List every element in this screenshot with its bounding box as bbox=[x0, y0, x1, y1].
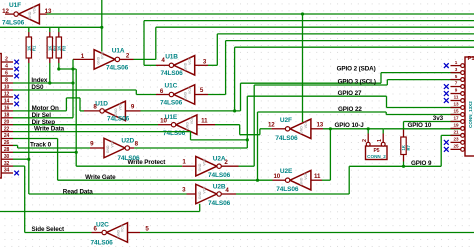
svg-text:9: 9 bbox=[455, 88, 458, 93]
U1A output pin 2 bbox=[120, 58, 134, 60]
resistor R1 bbox=[28, 27, 30, 32]
wire link rail (R3/U1A.in/WP riser) bbox=[59, 68, 76, 70]
wire U1C.out jog to DS0 bbox=[136, 94, 156, 96]
floppy pin 20 bbox=[1, 124, 13, 126]
wire R3 to link rail bbox=[58, 63, 60, 69]
wire GPIO2 SDA bbox=[241, 82, 382, 84]
U2A input pin 1 bbox=[182, 165, 196, 167]
svg-text:74LS06: 74LS06 bbox=[163, 130, 186, 137]
svg-text:74LS06: 74LS06 bbox=[117, 155, 140, 162]
svg-text:26: 26 bbox=[4, 140, 10, 146]
svg-text:CONN_13X2: CONN_13X2 bbox=[468, 101, 473, 128]
U2D input pin 9 bbox=[90, 147, 104, 149]
P5 pin 2 bbox=[366, 142, 370, 146]
GPIO pin 5 bbox=[461, 78, 465, 82]
U1C input pin 5 bbox=[195, 94, 208, 96]
wire bus GPIO (U1F in) bbox=[47, 13, 474, 15]
op-amp U1F 74LS06 inverter bbox=[18, 4, 39, 24]
svg-text:U1D: U1D bbox=[95, 101, 108, 108]
wire U2A.out to SCL riser bbox=[239, 165, 255, 167]
svg-text:VCC: VCC bbox=[188, 57, 192, 65]
op-amp U2A 74LS06 inverter bbox=[196, 156, 217, 176]
floppy pin 22 bbox=[1, 131, 13, 133]
floppy pin 30 bbox=[1, 158, 13, 160]
svg-text:GPIO 27: GPIO 27 bbox=[338, 90, 362, 97]
wire GPIO10 bbox=[383, 128, 461, 130]
svg-text:22: 22 bbox=[4, 126, 10, 132]
wire Write Data drop bbox=[190, 132, 192, 140]
svg-text:Index: Index bbox=[31, 77, 48, 84]
wire 3v3 bbox=[404, 121, 462, 123]
wire U1A.out up to bus bbox=[134, 58, 156, 60]
svg-text:R1: R1 bbox=[32, 45, 37, 51]
svg-text:VCC: VCC bbox=[304, 121, 308, 129]
svg-text:74LS06: 74LS06 bbox=[275, 135, 298, 142]
svg-text:14: 14 bbox=[4, 99, 10, 105]
U1E input pin 11 bbox=[197, 124, 215, 126]
svg-text:U2F: U2F bbox=[280, 117, 292, 124]
wire Side Select bbox=[25, 232, 92, 234]
wire U2E.in riser to GPIO10-J bbox=[322, 179, 330, 181]
U1A input pin 1 bbox=[73, 58, 94, 60]
op-amp U2F 74LS06 inverter bbox=[290, 119, 311, 139]
svg-text:28: 28 bbox=[4, 147, 10, 153]
op-amp U1B 74LS06 inverter bbox=[174, 56, 195, 76]
floppy pin 4 bbox=[1, 68, 13, 70]
svg-text:30: 30 bbox=[4, 154, 10, 160]
U1F output pin 12 stub bbox=[5, 13, 14, 15]
svg-text:74LS06: 74LS06 bbox=[276, 186, 299, 193]
svg-text:VCC: VCC bbox=[119, 103, 123, 111]
GPIO pin 13 bbox=[461, 106, 465, 110]
floppy pin 24 bbox=[1, 138, 13, 140]
wire Write Protect riser bbox=[75, 69, 77, 166]
svg-text:12: 12 bbox=[268, 122, 275, 129]
svg-text:74LS06: 74LS06 bbox=[107, 115, 130, 122]
op-amp U1D 74LS06 inverter bbox=[104, 101, 125, 121]
wire U2C.in to right edge bbox=[140, 232, 474, 234]
svg-text:GPIO 3 (SCL): GPIO 3 (SCL) bbox=[338, 79, 376, 86]
svg-text:U2C: U2C bbox=[96, 222, 109, 229]
svg-text:13: 13 bbox=[316, 122, 323, 129]
floppy pin 8 bbox=[1, 82, 13, 84]
floppy pin 28 bbox=[1, 151, 13, 153]
svg-text:34: 34 bbox=[4, 168, 10, 174]
floppy pin 32 bbox=[1, 165, 13, 167]
GPIO pin 21 bbox=[461, 134, 465, 138]
svg-text:VCC: VCC bbox=[33, 6, 37, 14]
U2F output pin 12 bbox=[271, 128, 285, 130]
svg-text:16: 16 bbox=[4, 106, 10, 112]
wire bus (U1B out) bbox=[144, 20, 474, 22]
svg-text:P1: P1 bbox=[468, 56, 474, 62]
svg-text:Track 0: Track 0 bbox=[30, 142, 52, 149]
wire Track 0 jog bbox=[13, 144, 18, 146]
resistor R2 bbox=[49, 27, 51, 32]
op-amp U2E 74LS06 inverter bbox=[290, 170, 311, 190]
svg-text:VCC: VCC bbox=[121, 224, 125, 232]
wire bus (U1B in) bbox=[217, 33, 474, 35]
wire GPIO27 riser (U2D.out/WriteData) bbox=[246, 96, 248, 148]
svg-text:4: 4 bbox=[5, 64, 8, 70]
wire U1D.in to bus riser and SDA riser bbox=[141, 110, 241, 112]
svg-text:74LS06: 74LS06 bbox=[161, 70, 184, 77]
svg-text:U2D: U2D bbox=[121, 138, 134, 145]
wire GPIO10-J bbox=[323, 128, 383, 130]
svg-text:VCC: VCC bbox=[111, 140, 115, 148]
wire U1E.in double jog to U2F.out bbox=[215, 124, 240, 126]
svg-text:2: 2 bbox=[362, 139, 368, 142]
U1F input pin 13 stub bbox=[39, 13, 47, 15]
U2B input pin 3 bbox=[187, 193, 196, 195]
U2E input pin 11 bbox=[311, 179, 322, 181]
wire U1B.out up to bus bbox=[144, 64, 156, 66]
svg-text:U1F: U1F bbox=[9, 2, 21, 9]
U1C output pin 6 bbox=[156, 94, 169, 96]
svg-text:U1B: U1B bbox=[165, 53, 178, 60]
svg-text:GPIO 22: GPIO 22 bbox=[338, 106, 362, 113]
U2A output pin 2 bbox=[221, 165, 238, 167]
svg-text:U1C: U1C bbox=[165, 83, 178, 90]
wire Dir Sel bbox=[13, 117, 73, 119]
wire Motor On with detour bbox=[13, 110, 66, 112]
svg-text:12: 12 bbox=[4, 92, 10, 98]
connector P2 (floppy, even pins) body edge bbox=[0, 54, 1, 179]
wire U1C.in up to bus bbox=[208, 94, 226, 96]
svg-text:VCC: VCC bbox=[304, 172, 308, 180]
floppy pin 12 bbox=[1, 96, 13, 98]
wire VCC rail bbox=[0, 26, 102, 28]
wire DS0 bbox=[13, 89, 136, 91]
U2B output pin 4 bbox=[221, 193, 236, 195]
wire Side Select from pin 32 bbox=[13, 165, 25, 167]
floppy pin 26 bbox=[1, 144, 13, 146]
wire Write Protect from pin 28 bbox=[13, 151, 76, 153]
U1E output pin 10 bbox=[158, 124, 171, 126]
svg-text:GPIO 9: GPIO 9 bbox=[411, 160, 432, 167]
wire bus (U1D in) bbox=[235, 46, 474, 48]
GPIO pin 17 bbox=[461, 120, 465, 124]
svg-text:10: 10 bbox=[4, 85, 10, 91]
svg-text:Read Data: Read Data bbox=[63, 189, 93, 196]
wire U2F hidden VCC drop from bus bbox=[302, 14, 304, 122]
GPIO pin 19 bbox=[461, 127, 465, 131]
svg-text:R3: R3 bbox=[62, 45, 67, 51]
floppy pin 18 bbox=[1, 117, 13, 119]
U1B output pin 4 bbox=[156, 64, 169, 66]
resistor R3 bbox=[58, 27, 60, 32]
svg-text:21: 21 bbox=[453, 130, 459, 135]
wire Write Gate to U2E.out bbox=[58, 179, 273, 181]
svg-text:15: 15 bbox=[453, 109, 459, 114]
svg-text:74LS06: 74LS06 bbox=[208, 200, 231, 207]
svg-text:VCC: VCC bbox=[190, 116, 194, 124]
wire Index bbox=[13, 82, 73, 84]
P5 pin 1 bbox=[381, 142, 385, 146]
wire Write Data bbox=[13, 131, 191, 133]
floppy pin 16 bbox=[1, 110, 13, 112]
floppy pin 10 bbox=[1, 89, 13, 91]
U2C input pin 5 bbox=[128, 232, 141, 234]
wire R2 to Index bbox=[49, 63, 51, 83]
svg-text:VCC: VCC bbox=[101, 51, 105, 59]
svg-text:11: 11 bbox=[201, 117, 208, 124]
floppy pin 14 bbox=[1, 103, 13, 105]
svg-text:17: 17 bbox=[453, 116, 459, 121]
svg-text:GPIO 2 (SDA): GPIO 2 (SDA) bbox=[337, 66, 376, 73]
wire U1A.in drop to Index and Dir Sel bbox=[72, 59, 74, 117]
svg-text:CONN_2: CONN_2 bbox=[367, 154, 386, 159]
svg-text:24: 24 bbox=[4, 133, 10, 139]
wire Read Data from pin 30 bbox=[13, 158, 29, 160]
svg-text:32: 32 bbox=[4, 161, 10, 167]
svg-text:8: 8 bbox=[5, 78, 8, 84]
svg-text:VCC: VCC bbox=[188, 86, 192, 94]
op-amp U1E 74LS06 inverter bbox=[176, 115, 197, 135]
svg-text:74LS06: 74LS06 bbox=[160, 100, 183, 107]
svg-text:25: 25 bbox=[453, 144, 459, 149]
svg-text:U2B: U2B bbox=[213, 183, 226, 190]
wire Read Data bbox=[29, 193, 187, 195]
U2C output pin 6 bbox=[92, 232, 102, 234]
GPIO pin 1 bbox=[461, 64, 465, 68]
wire GPIO3 SCL bbox=[254, 84, 387, 86]
svg-text:5: 5 bbox=[455, 74, 458, 79]
svg-text:Motor On: Motor On bbox=[32, 105, 59, 112]
GPIO pin 3 bbox=[461, 71, 465, 75]
svg-text:74LS06: 74LS06 bbox=[2, 20, 25, 27]
svg-text:19: 19 bbox=[453, 123, 459, 128]
svg-text:11: 11 bbox=[314, 173, 321, 180]
svg-text:Side Select: Side Select bbox=[32, 226, 66, 233]
U2E output pin 10 bbox=[273, 179, 286, 181]
wire GPIO22 bbox=[258, 111, 387, 113]
U1D input pin 9 bbox=[125, 110, 140, 112]
svg-text:74LS06: 74LS06 bbox=[91, 240, 114, 247]
GPIO pin 11 bbox=[461, 99, 465, 103]
svg-text:Write Gate: Write Gate bbox=[85, 174, 116, 181]
svg-text:11: 11 bbox=[454, 95, 459, 100]
svg-text:GPIO 10-J: GPIO 10-J bbox=[335, 122, 365, 129]
GPIO pin 9 bbox=[461, 92, 465, 96]
wire Write Protect to U2A bbox=[76, 165, 182, 167]
svg-text:10: 10 bbox=[160, 117, 167, 124]
svg-text:18: 18 bbox=[4, 113, 10, 119]
wire GND rail bbox=[0, 211, 200, 213]
op-amp U2D 74LS06 inverter bbox=[104, 138, 125, 158]
svg-text:20: 20 bbox=[4, 119, 10, 125]
svg-text:10: 10 bbox=[273, 173, 280, 180]
svg-text:1: 1 bbox=[377, 139, 383, 142]
resistor R7 bbox=[403, 122, 405, 130]
wire Write Gate drop from pin 24 bbox=[13, 138, 58, 140]
connector P5 CONN_2 bbox=[366, 146, 388, 160]
svg-text:13: 13 bbox=[453, 102, 459, 107]
op-amp U2C 74LS06 inverter bbox=[107, 223, 128, 243]
wire U2D.out to GPIO27 riser bbox=[134, 147, 247, 149]
GPIO pin 7 bbox=[461, 85, 465, 89]
wire GND riser to U2B hidden GND pin bbox=[199, 204, 201, 212]
svg-text:1: 1 bbox=[455, 60, 458, 65]
svg-text:U2E: U2E bbox=[280, 168, 293, 175]
wire bus (U1C in) bbox=[226, 40, 474, 42]
GPIO pin 25 bbox=[461, 147, 465, 151]
svg-text:3: 3 bbox=[455, 67, 458, 72]
floppy pin 2 bbox=[1, 61, 13, 63]
wire U1B.in up to bus bbox=[208, 64, 217, 66]
wire Dir Step to U1E.out bbox=[13, 124, 158, 126]
op-amp U2B 74LS06 inverter bbox=[196, 184, 217, 204]
floppy pin 34 bbox=[1, 172, 13, 174]
svg-text:Write Data: Write Data bbox=[34, 126, 65, 133]
svg-text:2: 2 bbox=[5, 57, 8, 63]
svg-text:3v3: 3v3 bbox=[433, 115, 444, 122]
wire R1 to Read Data (long vertical) bbox=[28, 63, 30, 194]
svg-text:R7: R7 bbox=[406, 144, 411, 150]
svg-text:74LS06: 74LS06 bbox=[208, 172, 231, 179]
svg-text:VCC: VCC bbox=[202, 186, 206, 194]
wire GPIO27 bbox=[247, 95, 386, 97]
GPIO pin 23 bbox=[461, 140, 465, 144]
U1D output pin 8 bbox=[84, 110, 100, 112]
wire GPIO22 riser from Write Gate bbox=[257, 112, 259, 180]
svg-text:U1A: U1A bbox=[112, 47, 125, 54]
svg-text:74LS06: 74LS06 bbox=[106, 65, 129, 72]
svg-text:DS0: DS0 bbox=[31, 84, 44, 91]
svg-text:12: 12 bbox=[2, 8, 9, 15]
floppy pin 6 bbox=[1, 75, 13, 77]
wire U2B.out to GPIO9 bbox=[236, 193, 349, 195]
svg-text:GPIO 10: GPIO 10 bbox=[408, 122, 432, 129]
op-amp U1A 74LS06 inverter bbox=[94, 50, 115, 70]
svg-text:7: 7 bbox=[455, 81, 458, 86]
U1B input pin 3 bbox=[195, 64, 208, 66]
svg-text:VCC: VCC bbox=[202, 158, 206, 166]
GPIO pin 15 bbox=[461, 113, 465, 117]
U2D output pin 8 bbox=[130, 147, 135, 149]
wire VCC drop to U1A hidden VCC pin bbox=[101, 0, 103, 52]
svg-text:6: 6 bbox=[5, 71, 8, 77]
wire bus (U1A out) bbox=[156, 26, 474, 28]
op-amp U1C 74LS06 inverter bbox=[174, 85, 195, 105]
U2F input pin 13 bbox=[311, 128, 323, 130]
svg-text:23: 23 bbox=[453, 137, 459, 142]
connector P1 body bbox=[465, 57, 474, 156]
